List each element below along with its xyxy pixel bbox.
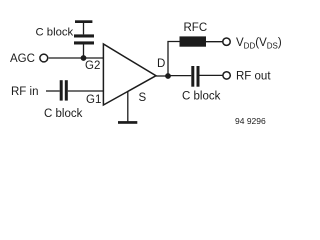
wire RF in to input capacitor	[46, 90, 60, 92]
svg-text:D: D	[157, 58, 165, 70]
junction node G2	[81, 55, 87, 61]
svg-text:S: S	[139, 92, 147, 104]
capacitor C block (RF input)	[60, 80, 68, 100]
svg-text:G1: G1	[86, 94, 101, 106]
terminal VDD	[223, 38, 230, 45]
svg-text:RF in: RF in	[11, 86, 38, 98]
wire input capacitor to gate 1	[68, 90, 104, 92]
junction node D	[165, 73, 171, 79]
svg-text:RF out: RF out	[236, 71, 271, 83]
wire S (source lead)	[127, 92, 129, 122]
wire AGC terminal to gate 2	[49, 57, 104, 59]
wire D node up to supply branch	[168, 42, 180, 77]
svg-text:C block: C block	[36, 27, 74, 39]
capacitor C block (RF output)	[191, 66, 199, 87]
svg-text:94 9296: 94 9296	[235, 116, 266, 126]
wire RFC to VDD terminal	[206, 41, 223, 43]
svg-text:AGC: AGC	[10, 53, 35, 65]
terminal AGC	[40, 54, 48, 62]
svg-text:G2: G2	[85, 60, 100, 72]
svg-text:C block: C block	[44, 108, 83, 120]
svg-text:C block: C block	[182, 91, 221, 103]
transistor amplifier triangle	[103, 44, 156, 105]
wire D node to output capacitor	[168, 75, 191, 77]
wire D (drain lead from apex)	[156, 75, 168, 77]
ground (gate 2 decoupling, bar drawn at top)	[75, 20, 92, 23]
inductor RFC (RF choke)	[180, 36, 207, 46]
capacitor C block (gate 2 decoupling)	[74, 22, 94, 58]
wire output capacitor to RF out terminal	[200, 74, 223, 76]
ground (source)	[118, 121, 137, 124]
svg-text:RFC: RFC	[184, 22, 208, 34]
terminal RF out	[223, 72, 230, 79]
